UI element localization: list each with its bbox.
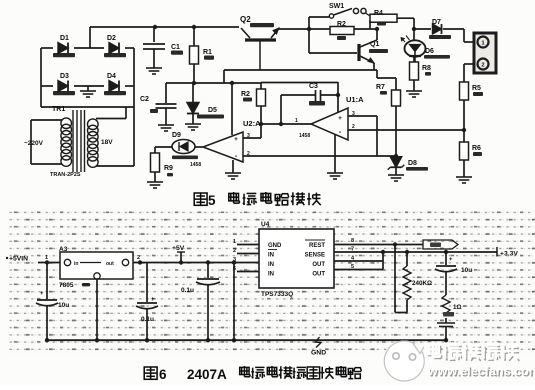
diode D4 — [104, 73, 134, 95]
node rail junction C1 — [153, 25, 157, 29]
svg-text:R2: R2 — [241, 91, 250, 98]
svg-text:SW1: SW1 — [329, 3, 344, 10]
ground D8 — [388, 175, 404, 181]
svg-text:+5VIN: +5VIN — [9, 256, 28, 263]
svg-text:A3: A3 — [59, 246, 68, 253]
svg-text:1458: 1458 — [299, 133, 310, 139]
capacitor C16 10u — [435, 252, 472, 295]
svg-text:+: + — [40, 291, 44, 297]
wire U1A in2 — [348, 124, 464, 130]
resistor R5 — [460, 64, 484, 130]
svg-text:IN: IN — [268, 272, 274, 278]
svg-text:+: + — [151, 297, 155, 303]
wire D7 to connector — [464, 29, 474, 42]
resistor R7 — [376, 78, 401, 156]
diode D6 LED — [401, 18, 450, 62]
watermark logo — [384, 341, 424, 381]
svg-text:+: + — [234, 136, 238, 143]
svg-text:~220V: ~220V — [24, 140, 44, 147]
svg-text:GND: GND — [311, 350, 326, 357]
svg-text:R5: R5 — [472, 85, 481, 92]
wire D9 to R9 — [155, 146, 172, 148]
power flag +5V — [172, 245, 185, 265]
wire U4 pin stubs left — [233, 239, 259, 272]
svg-text:7805: 7805 — [59, 282, 74, 289]
switch SW1 — [309, 3, 366, 29]
resistor R2 mid — [241, 83, 266, 124]
wire reset drop — [394, 245, 396, 253]
svg-text:+: + — [449, 257, 453, 263]
svg-text:R1: R1 — [203, 49, 212, 56]
diode D3 — [41, 73, 104, 95]
capacitor C2 — [140, 83, 177, 125]
caption figure 5 — [194, 192, 321, 208]
resistor R8 — [410, 56, 432, 91]
resistor R 240K — [403, 252, 432, 313]
wire emitter y29 — [279, 27, 311, 31]
wire riser bridge to rail — [89, 27, 91, 48]
svg-text:+: + — [338, 115, 342, 122]
svg-text:0.1u: 0.1u — [181, 287, 194, 294]
svg-text:U2:A: U2:A — [243, 119, 261, 128]
diode D9 LED — [172, 132, 203, 159]
svg-text:7: 7 — [351, 247, 354, 253]
ground C2 — [158, 125, 174, 131]
svg-text:2: 2 — [352, 124, 355, 130]
resistor R 1ohm — [442, 295, 462, 323]
svg-text:OUT: OUT — [312, 272, 325, 278]
diode D1 — [41, 35, 104, 57]
wire bridge right rail — [133, 48, 135, 166]
wire U4 gnd drop — [233, 263, 235, 341]
wire U4 sense out rail — [334, 247, 497, 255]
svg-text:TRAN-2P2S: TRAN-2P2S — [50, 172, 81, 178]
resistor R9 — [151, 147, 174, 182]
wire top rail — [90, 26, 239, 28]
svg-text:R9: R9 — [164, 165, 173, 172]
wire connector pin2 — [464, 63, 474, 65]
node rail junction R1 — [192, 25, 196, 29]
svg-text:in: in — [74, 261, 78, 267]
wire U2A in- — [243, 155, 396, 157]
node divider — [462, 128, 466, 132]
svg-text:R4: R4 — [374, 10, 383, 17]
diode D8 — [388, 154, 428, 175]
wire A3 ground leg — [96, 279, 98, 340]
svg-text:D6: D6 — [425, 48, 434, 55]
resistor R4 — [366, 10, 415, 29]
svg-text:Q1: Q1 — [370, 41, 379, 48]
connector J1 — [474, 33, 496, 73]
wire U2A in+ — [243, 124, 261, 138]
svg-text:IN: IN — [268, 262, 274, 268]
capacitor C1 — [143, 27, 183, 68]
wire bridge left rail — [40, 48, 42, 107]
ground R6 — [456, 177, 472, 183]
diode D2 — [104, 35, 134, 57]
svg-text:C3: C3 — [309, 83, 318, 90]
ground C1 — [146, 68, 162, 74]
capacitor C13 10u — [36, 263, 69, 341]
svg-text:0.1u: 0.1u — [141, 316, 154, 323]
svg-text:D1: D1 — [60, 35, 69, 42]
wire base jog y70 — [224, 70, 377, 83]
svg-text:D2: D2 — [107, 35, 116, 42]
wire input — [38, 255, 60, 265]
svg-text:OUT: OUT — [312, 262, 325, 268]
ground R9 — [147, 182, 163, 188]
svg-text:D3: D3 — [60, 73, 69, 80]
ground U2A — [225, 173, 241, 179]
op-amp U2A — [190, 83, 261, 173]
wire U1A out — [259, 122, 311, 126]
svg-text:D5: D5 — [208, 107, 217, 114]
transformer TR1 — [24, 106, 134, 178]
resistor R6 — [460, 130, 483, 177]
svg-text:D7: D7 — [432, 19, 441, 26]
wire y82 extension — [261, 82, 338, 84]
svg-text:REST: REST — [309, 243, 325, 249]
svg-text:D4: D4 — [107, 73, 116, 80]
svg-text:www.elecfans.com: www.elecfans.com — [427, 364, 535, 378]
wire node row y83 — [166, 81, 261, 85]
wire U4 out pins — [334, 252, 383, 270]
watermark text — [427, 343, 535, 379]
svg-text:R8: R8 — [422, 65, 431, 72]
svg-text:8: 8 — [351, 238, 354, 244]
svg-text:10u: 10u — [58, 302, 69, 309]
svg-text:C1: C1 — [171, 44, 180, 51]
svg-text:1458: 1458 — [190, 162, 201, 168]
transistor Q1 — [309, 29, 388, 63]
capacitor C14 0.1u — [136, 263, 158, 341]
svg-text:D9: D9 — [172, 132, 181, 139]
svg-text:IN: IN — [268, 253, 274, 259]
svg-text:5: 5 — [208, 193, 216, 208]
svg-text:C2: C2 — [140, 96, 149, 103]
op-amp U1A — [295, 82, 364, 173]
capacitor C17 — [437, 323, 455, 327]
label +5VIN — [6, 256, 28, 263]
svg-text:R2: R2 — [337, 21, 346, 28]
wire A3 out — [133, 255, 259, 265]
diode D5 — [187, 83, 224, 124]
grid background — [8, 209, 535, 354]
svg-text:R7: R7 — [376, 84, 385, 91]
regulator A3 7805 — [59, 246, 133, 289]
ground U1A — [327, 173, 343, 179]
svg-text:2: 2 — [481, 63, 484, 69]
wire y70 corner to R7 — [377, 70, 396, 78]
wire reset feedback — [395, 252, 407, 313]
ground bridge center — [80, 86, 96, 97]
svg-text:TPS7333Q: TPS7333Q — [261, 291, 293, 298]
wire R2 right drop — [375, 27, 379, 40]
svg-text:1: 1 — [233, 239, 236, 245]
svg-text:5: 5 — [351, 264, 354, 270]
resistor R1 — [190, 27, 215, 83]
svg-text:R6: R6 — [472, 145, 481, 152]
svg-text:10u: 10u — [461, 267, 472, 274]
svg-text:U4: U4 — [261, 221, 270, 228]
label +3.3V — [497, 247, 518, 258]
svg-text:2: 2 — [233, 248, 236, 254]
svg-text:3: 3 — [233, 257, 236, 263]
label net RESET pennant — [423, 240, 458, 249]
svg-text:+5V: +5V — [172, 245, 185, 252]
wire Q1 emitter drop — [373, 63, 375, 70]
svg-text:+3.3V: +3.3V — [500, 251, 518, 258]
svg-text:240KΩ: 240KΩ — [412, 280, 432, 287]
svg-text:6: 6 — [233, 266, 236, 272]
svg-text:2407A: 2407A — [187, 367, 227, 382]
svg-text:SENSE: SENSE — [305, 253, 325, 259]
svg-text:1Ω: 1Ω — [453, 304, 462, 311]
svg-text:6: 6 — [159, 367, 167, 382]
transistor Q2 — [240, 15, 279, 70]
diode D7 — [414, 19, 464, 39]
ground R8 — [406, 91, 422, 97]
ground D5 — [185, 124, 201, 130]
resistor R2 top — [309, 21, 377, 40]
svg-text:3: 3 — [352, 111, 355, 117]
ic U4 TPS7333Q — [259, 221, 334, 298]
wire bottom rail — [45, 338, 448, 342]
svg-text:GND: GND — [268, 243, 282, 249]
svg-text:TR1: TR1 — [52, 106, 65, 113]
svg-text:D8: D8 — [408, 160, 417, 167]
svg-text:18V: 18V — [101, 139, 113, 146]
svg-text:1: 1 — [295, 118, 298, 124]
wire U4 reset — [334, 238, 423, 247]
svg-text:out: out — [106, 261, 114, 267]
power flag GND — [311, 337, 326, 357]
capacitor C15 0.1u — [181, 263, 220, 341]
caption figure 6 — [144, 366, 361, 382]
wire U1A in3 — [348, 111, 377, 156]
svg-text:1: 1 — [45, 255, 48, 261]
svg-text:2: 2 — [137, 255, 140, 261]
wire C17 bottom — [445, 327, 447, 341]
svg-text:Q2: Q2 — [240, 15, 251, 24]
svg-text:U1:A: U1:A — [346, 95, 364, 104]
capacitor C3 — [281, 83, 338, 124]
